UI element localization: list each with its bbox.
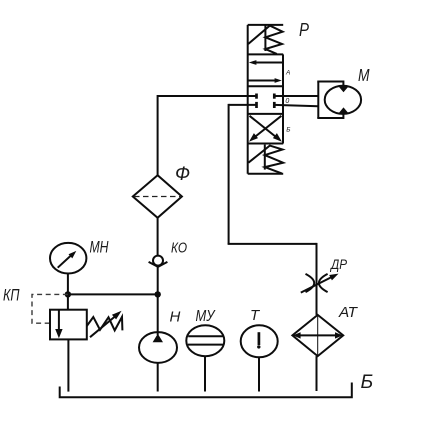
wire Т to tank bbox=[258, 357, 260, 392]
level indicator МУ bbox=[186, 325, 224, 356]
wire МУ to tank bbox=[204, 356, 206, 392]
wire valve port B to throttle (drain line) bbox=[228, 104, 317, 315]
wire node link (gauge branch to pump line) bbox=[68, 293, 158, 295]
wire pump to tank bbox=[157, 363, 159, 392]
svg-text:Б: Б bbox=[361, 371, 374, 393]
check valve КО bbox=[149, 256, 168, 267]
svg-text:0: 0 bbox=[285, 98, 289, 105]
svg-text:МН: МН bbox=[90, 238, 110, 257]
wire relief valve to tank bbox=[67, 339, 69, 391]
wire gauge to relief valve bbox=[67, 273, 69, 310]
wire check valve to pump (through node) bbox=[157, 267, 159, 336]
svg-text:Ф: Ф bbox=[175, 164, 190, 185]
svg-text:Р: Р bbox=[299, 19, 310, 40]
heat exchanger АТ diamond bbox=[292, 315, 343, 356]
svg-text:АТ: АТ bbox=[338, 304, 359, 321]
wire filter to check valve bbox=[157, 218, 159, 256]
svg-text:КО: КО bbox=[171, 240, 187, 257]
valve position A arrows bbox=[248, 60, 283, 83]
valve position 0 blocked ports (T stubs) bbox=[257, 94, 275, 109]
tank Б bbox=[60, 383, 352, 398]
valve top spring bbox=[248, 25, 282, 54]
valve position B crossed arrows bbox=[249, 116, 282, 142]
svg-text:КП: КП bbox=[3, 286, 20, 305]
node at pump line bbox=[155, 291, 161, 297]
thermometer Т bbox=[241, 325, 278, 357]
svg-text:Б: Б bbox=[286, 126, 290, 133]
relief valve КП spring with adjusting arrow bbox=[87, 311, 123, 338]
motor М circle with two triangles bbox=[325, 86, 361, 114]
node at gauge branch bbox=[65, 291, 71, 297]
wire valve to motor (two stubs) bbox=[274, 95, 318, 97]
svg-text:Н: Н bbox=[170, 309, 181, 326]
svg-text:М: М bbox=[358, 65, 370, 85]
svg-text:А: А bbox=[285, 70, 290, 77]
pressure gauge МН bbox=[50, 243, 86, 274]
dashed pilot line of КП bbox=[32, 294, 68, 323]
directional valve Р body outline bbox=[248, 25, 284, 174]
pump Н bbox=[139, 332, 177, 363]
valve bottom spring bbox=[248, 145, 283, 174]
filter Ф diamond bbox=[133, 175, 182, 218]
motor М bracket bbox=[317, 81, 343, 120]
throttle ДР bbox=[301, 274, 339, 293]
wire heat exchanger to tank bbox=[316, 356, 318, 391]
relief valve КП box bbox=[50, 310, 87, 340]
wire valve port A to filter (horizontal + vertical) bbox=[158, 95, 257, 97]
svg-text:МУ: МУ bbox=[196, 308, 216, 325]
svg-text:ДР: ДР bbox=[329, 256, 347, 272]
